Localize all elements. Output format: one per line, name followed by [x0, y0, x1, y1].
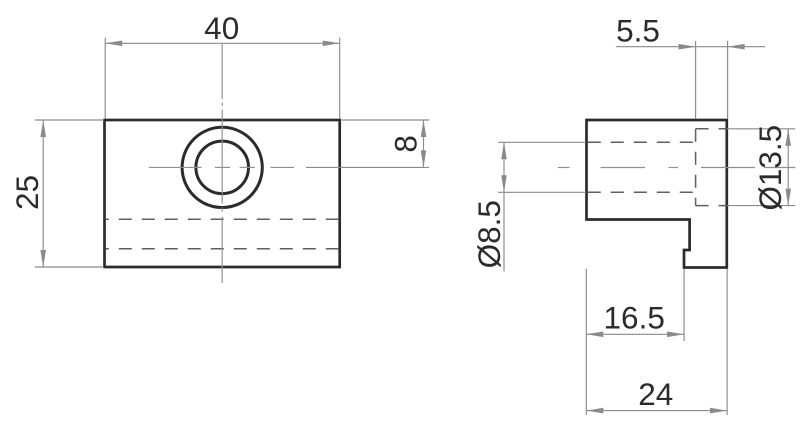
dim 24 extension line right — [726, 269, 728, 415]
dim Ø8.5 arrow top — [501, 142, 507, 159]
dim Ø8.5 dimension line — [503, 142, 505, 271]
dim 16.5 arrow left — [586, 332, 603, 338]
dim 16.5 arrow right — [667, 332, 684, 338]
front view outline — [105, 120, 340, 267]
vertical centerline front view — [221, 44, 223, 283]
svg-text:Ø8.5: Ø8.5 — [471, 200, 507, 268]
horizontal centerline front view — [149, 166, 294, 168]
dim 40 extension line left — [104, 38, 106, 120]
dim 24 dimension line — [586, 410, 727, 412]
hidden line lower (slot) front view — [106, 248, 339, 250]
dim 5.5 extension line right — [727, 41, 729, 119]
dim 24 arrow left — [586, 408, 603, 414]
dim 5.5 extension line left — [695, 41, 697, 119]
hidden line counterbore top, side view — [696, 128, 726, 130]
dim Ø8.5 extension line top — [498, 141, 586, 143]
dim 16.5 extension line right — [683, 269, 685, 341]
dim Ø8.5 extension line bottom — [498, 191, 586, 193]
dim Ø13.5 arrow bottom — [785, 189, 791, 206]
dim 25 arrow bottom — [40, 250, 46, 267]
hidden line counterbore vertical, side view — [695, 129, 697, 206]
dim 24 arrow right — [710, 408, 727, 414]
dim 40 arrow left — [105, 41, 122, 47]
svg-text:40: 40 — [204, 10, 239, 46]
hidden line hole Ø8.5 top, side view — [588, 141, 696, 143]
dim Ø13.5 arrow top — [785, 129, 791, 146]
counterbore circle (Ø13.5) front view — [182, 127, 262, 207]
svg-text:8: 8 — [388, 135, 424, 153]
dim Ø8.5 arrow bottom — [501, 175, 507, 192]
dim 25 dimension line — [42, 120, 44, 267]
svg-text:25: 25 — [9, 175, 45, 210]
hidden line upper (slot) front view — [106, 218, 339, 220]
side view outline — [587, 120, 727, 268]
dim 25 extension line top — [35, 119, 104, 121]
hidden line hole Ø8.5 bottom, side view — [588, 191, 696, 193]
hole circle (Ø8.5) front view — [196, 141, 249, 194]
hidden line counterbore bottom, side view — [696, 205, 726, 207]
dim 25 arrow top — [40, 120, 46, 137]
svg-text:5.5: 5.5 — [616, 13, 660, 49]
dim 5.5 dimension line — [616, 46, 765, 48]
dim 40 arrow right — [323, 41, 340, 47]
dim 16.5 extension line left (shared with 24) — [585, 269, 587, 415]
horizontal centerline side view — [558, 167, 796, 169]
dim 16.5 dimension line — [586, 333, 684, 335]
dim 25 extension line bottom — [35, 266, 104, 268]
dim 40 extension line right — [339, 38, 341, 120]
horizontal centerline extension to dim 8 — [306, 166, 429, 168]
svg-text:16.5: 16.5 — [604, 300, 665, 336]
dim Ø13.5 dimension line — [787, 129, 789, 206]
dim 5.5 arrow (points right) — [679, 44, 696, 50]
dim Ø13.5 extension line bottom — [727, 205, 796, 207]
svg-text:Ø13.5: Ø13.5 — [752, 125, 788, 211]
dim 5.5 arrow (points left) — [728, 44, 745, 50]
dim 8 extension line top — [342, 119, 430, 121]
dim 40 dimension line — [105, 42, 340, 44]
dim 8 arrow top — [421, 120, 427, 137]
dim 8 dimension line — [423, 120, 425, 167]
svg-text:24: 24 — [638, 376, 673, 412]
dim 8 arrow bottom — [421, 150, 427, 167]
dim Ø13.5 extension line top — [727, 128, 796, 130]
